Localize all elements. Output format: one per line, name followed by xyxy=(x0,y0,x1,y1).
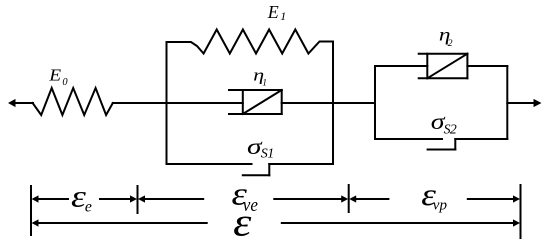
wire xyxy=(375,65,427,67)
left arrow xyxy=(8,99,33,107)
svg-text:2: 2 xyxy=(450,121,457,136)
svg-text:1: 1 xyxy=(262,78,267,88)
wire xyxy=(467,65,507,67)
label sigmaS1 xyxy=(247,133,274,162)
node: right block right rail xyxy=(506,66,508,139)
dim eps_ve arrows xyxy=(138,195,348,202)
dimension tick 3 xyxy=(348,185,350,212)
node: Kelvin block right rail xyxy=(332,42,334,164)
right arrow xyxy=(507,99,541,107)
wire xyxy=(113,102,167,104)
slider sigmaS1 xyxy=(167,164,334,175)
svg-text:vp: vp xyxy=(433,198,448,214)
spring E1 xyxy=(167,30,334,54)
slider sigmaS2 xyxy=(375,139,507,150)
svg-text:E: E xyxy=(267,2,279,22)
dashpot U2 (eta2) xyxy=(419,54,468,79)
wire xyxy=(333,102,375,104)
label E0 xyxy=(48,65,68,88)
label eps_ve xyxy=(232,175,259,215)
dim eps_vp arrows xyxy=(349,195,520,202)
dim eps_e arrows xyxy=(32,195,138,202)
svg-text:2: 2 xyxy=(448,38,453,49)
label eps_vp xyxy=(421,178,447,214)
label sigmaS2 xyxy=(431,109,457,137)
label eta2 xyxy=(439,26,453,49)
svg-text:ε: ε xyxy=(233,200,252,245)
svg-text:1: 1 xyxy=(267,147,274,162)
svg-text:0: 0 xyxy=(62,77,68,88)
dimension tick left xyxy=(30,186,32,235)
wire xyxy=(167,102,243,104)
node: right block left rail xyxy=(374,66,376,139)
node: Kelvin block left rail xyxy=(166,42,168,164)
dashpot U1 (eta1) xyxy=(229,90,282,114)
spring E0 xyxy=(33,88,113,115)
label E1 xyxy=(267,2,287,23)
label eps_e xyxy=(71,180,92,216)
dim eps total arrows xyxy=(32,219,521,226)
wire xyxy=(282,102,333,104)
dimension tick right xyxy=(520,185,522,238)
svg-text:1: 1 xyxy=(280,9,286,23)
label eta1 xyxy=(253,67,267,88)
svg-text:e: e xyxy=(85,199,92,216)
svg-text:E: E xyxy=(48,65,61,84)
dimension tick 2 xyxy=(137,186,139,213)
